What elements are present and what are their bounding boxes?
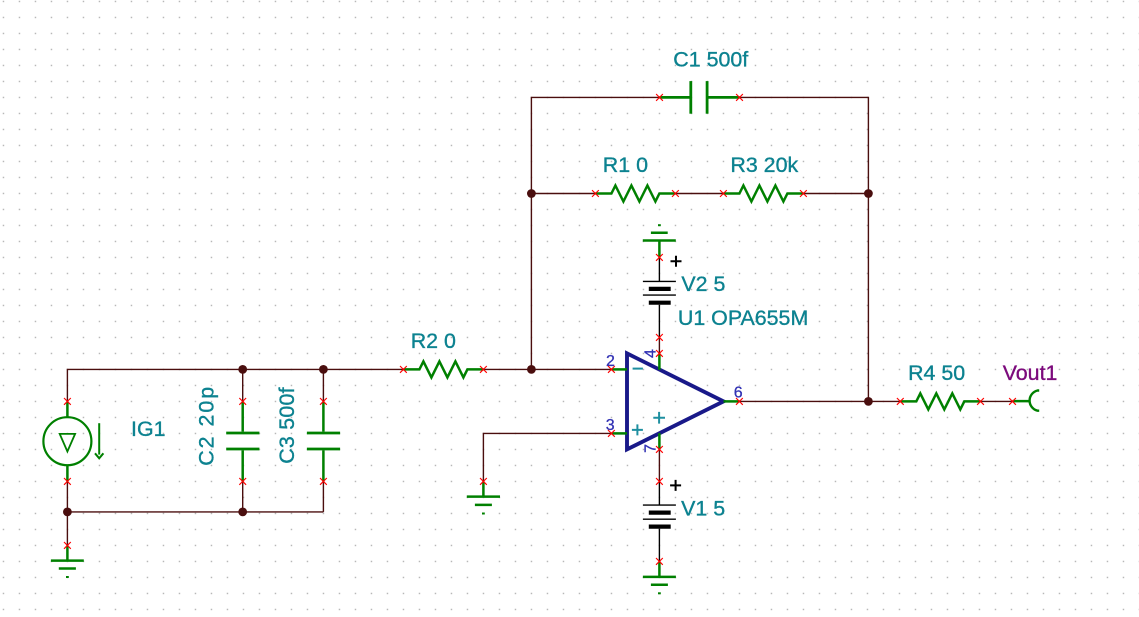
wire — [322, 481, 324, 512]
wire — [981, 400, 1013, 402]
wire — [67, 369, 403, 401]
battery V1 — [643, 480, 681, 527]
terminal x (U1 pin 6) — [736, 398, 743, 405]
wire — [658, 305, 660, 338]
node (R3 right) — [864, 189, 873, 198]
svg-text:R1 0: R1 0 — [603, 153, 648, 177]
node junction dots — [63, 189, 873, 516]
op-amp U1 — [611, 353, 739, 449]
terminal x (ground pin 3) — [480, 478, 487, 485]
wire — [322, 369, 324, 401]
svg-text:C2 20p: C2 20p — [194, 385, 218, 466]
node (C2 top) — [238, 365, 247, 374]
svg-text:R3 20k: R3 20k — [730, 153, 798, 177]
wire — [658, 257, 660, 281]
wire — [658, 337, 660, 353]
svg-text:C3 500f: C3 500f — [275, 387, 299, 464]
node (output) — [864, 397, 873, 406]
terminal x (R3 left) — [720, 190, 727, 197]
svg-text:V2 5: V2 5 — [681, 272, 725, 296]
terminal x (R4 right) — [977, 398, 984, 405]
wire — [531, 193, 595, 195]
svg-text:C1 500f: C1 500f — [673, 48, 748, 72]
terminal x (Vout1) — [1009, 398, 1016, 405]
wire — [739, 400, 900, 402]
capacitor C3 — [307, 401, 340, 481]
wire — [675, 193, 723, 195]
wire — [740, 97, 869, 401]
wire — [483, 368, 611, 370]
ground (above V2, inverted) — [643, 225, 676, 257]
battery V2 — [643, 256, 682, 303]
ground (V1) — [643, 561, 676, 593]
wire — [483, 433, 611, 481]
terminal x (V1 bottom / ground) — [656, 558, 663, 565]
wire — [67, 511, 323, 513]
svg-text:R2 0: R2 0 — [411, 329, 456, 353]
capacitor C2 — [226, 401, 259, 481]
node (R1 left) — [527, 189, 536, 198]
terminal x (R2 right) — [480, 366, 487, 373]
wire — [658, 449, 660, 481]
wire — [66, 512, 68, 546]
terminal x (R1 right) — [672, 190, 679, 197]
ground (IG1) — [51, 545, 84, 577]
terminal x (R3 right) — [800, 190, 807, 197]
terminal x (C2 bottom) — [239, 478, 246, 485]
svg-text:U1 OPA655M: U1 OPA655M — [678, 306, 808, 330]
terminal x (V1 top) — [656, 478, 663, 485]
terminal x (C3 top) — [320, 398, 327, 405]
terminal x (ground IG1) — [64, 542, 71, 549]
terminal x (IG1 top) — [64, 398, 71, 405]
wire — [531, 97, 659, 369]
terminal x (V2 top / ground) — [656, 254, 663, 261]
resistor R2 — [403, 361, 483, 377]
terminal x marks — [64, 94, 1016, 565]
svg-text:IG1: IG1 — [131, 417, 165, 441]
node (IG1 bottom) — [63, 508, 72, 517]
terminal x (C2 top) — [239, 398, 246, 405]
ground (pin 3) — [467, 481, 500, 513]
resistor R3 — [723, 186, 803, 202]
terminal x (R2 left) — [400, 366, 407, 373]
terminal x (U1 pin 4) — [656, 350, 663, 357]
terminal x (R4 left) — [897, 398, 904, 405]
current source IG1 — [43, 401, 103, 481]
terminal x (C1 left) — [656, 94, 663, 101]
output terminal Vout1 — [1013, 391, 1040, 411]
wire — [658, 529, 660, 562]
wire — [66, 481, 68, 512]
wire — [242, 369, 244, 401]
svg-text:V1 5: V1 5 — [681, 496, 725, 520]
svg-text:R4 50: R4 50 — [908, 361, 965, 385]
capacitor C1 — [660, 81, 740, 114]
node (C3 top) — [319, 365, 328, 374]
terminal x (IG1 bottom) — [64, 478, 71, 485]
terminal x (C3 bottom) — [320, 478, 327, 485]
terminal x (U1 pin 3) — [608, 430, 615, 437]
resistor R1 — [595, 186, 675, 202]
wire — [658, 481, 660, 505]
node (feedback tap) — [527, 365, 536, 374]
svg-text:Vout1: Vout1 — [1003, 361, 1058, 385]
wire — [242, 481, 244, 512]
terminal x (C1 right) — [736, 94, 743, 101]
terminal x (U1 pin 2) — [608, 366, 615, 373]
terminal x (R1 left) — [592, 190, 599, 197]
wire — [803, 193, 868, 195]
terminal x (U1 pin 7) — [656, 446, 663, 453]
node (C2 bottom) — [238, 508, 247, 517]
terminal x (V2 bottom) — [656, 334, 663, 341]
resistor R4 — [900, 393, 980, 409]
